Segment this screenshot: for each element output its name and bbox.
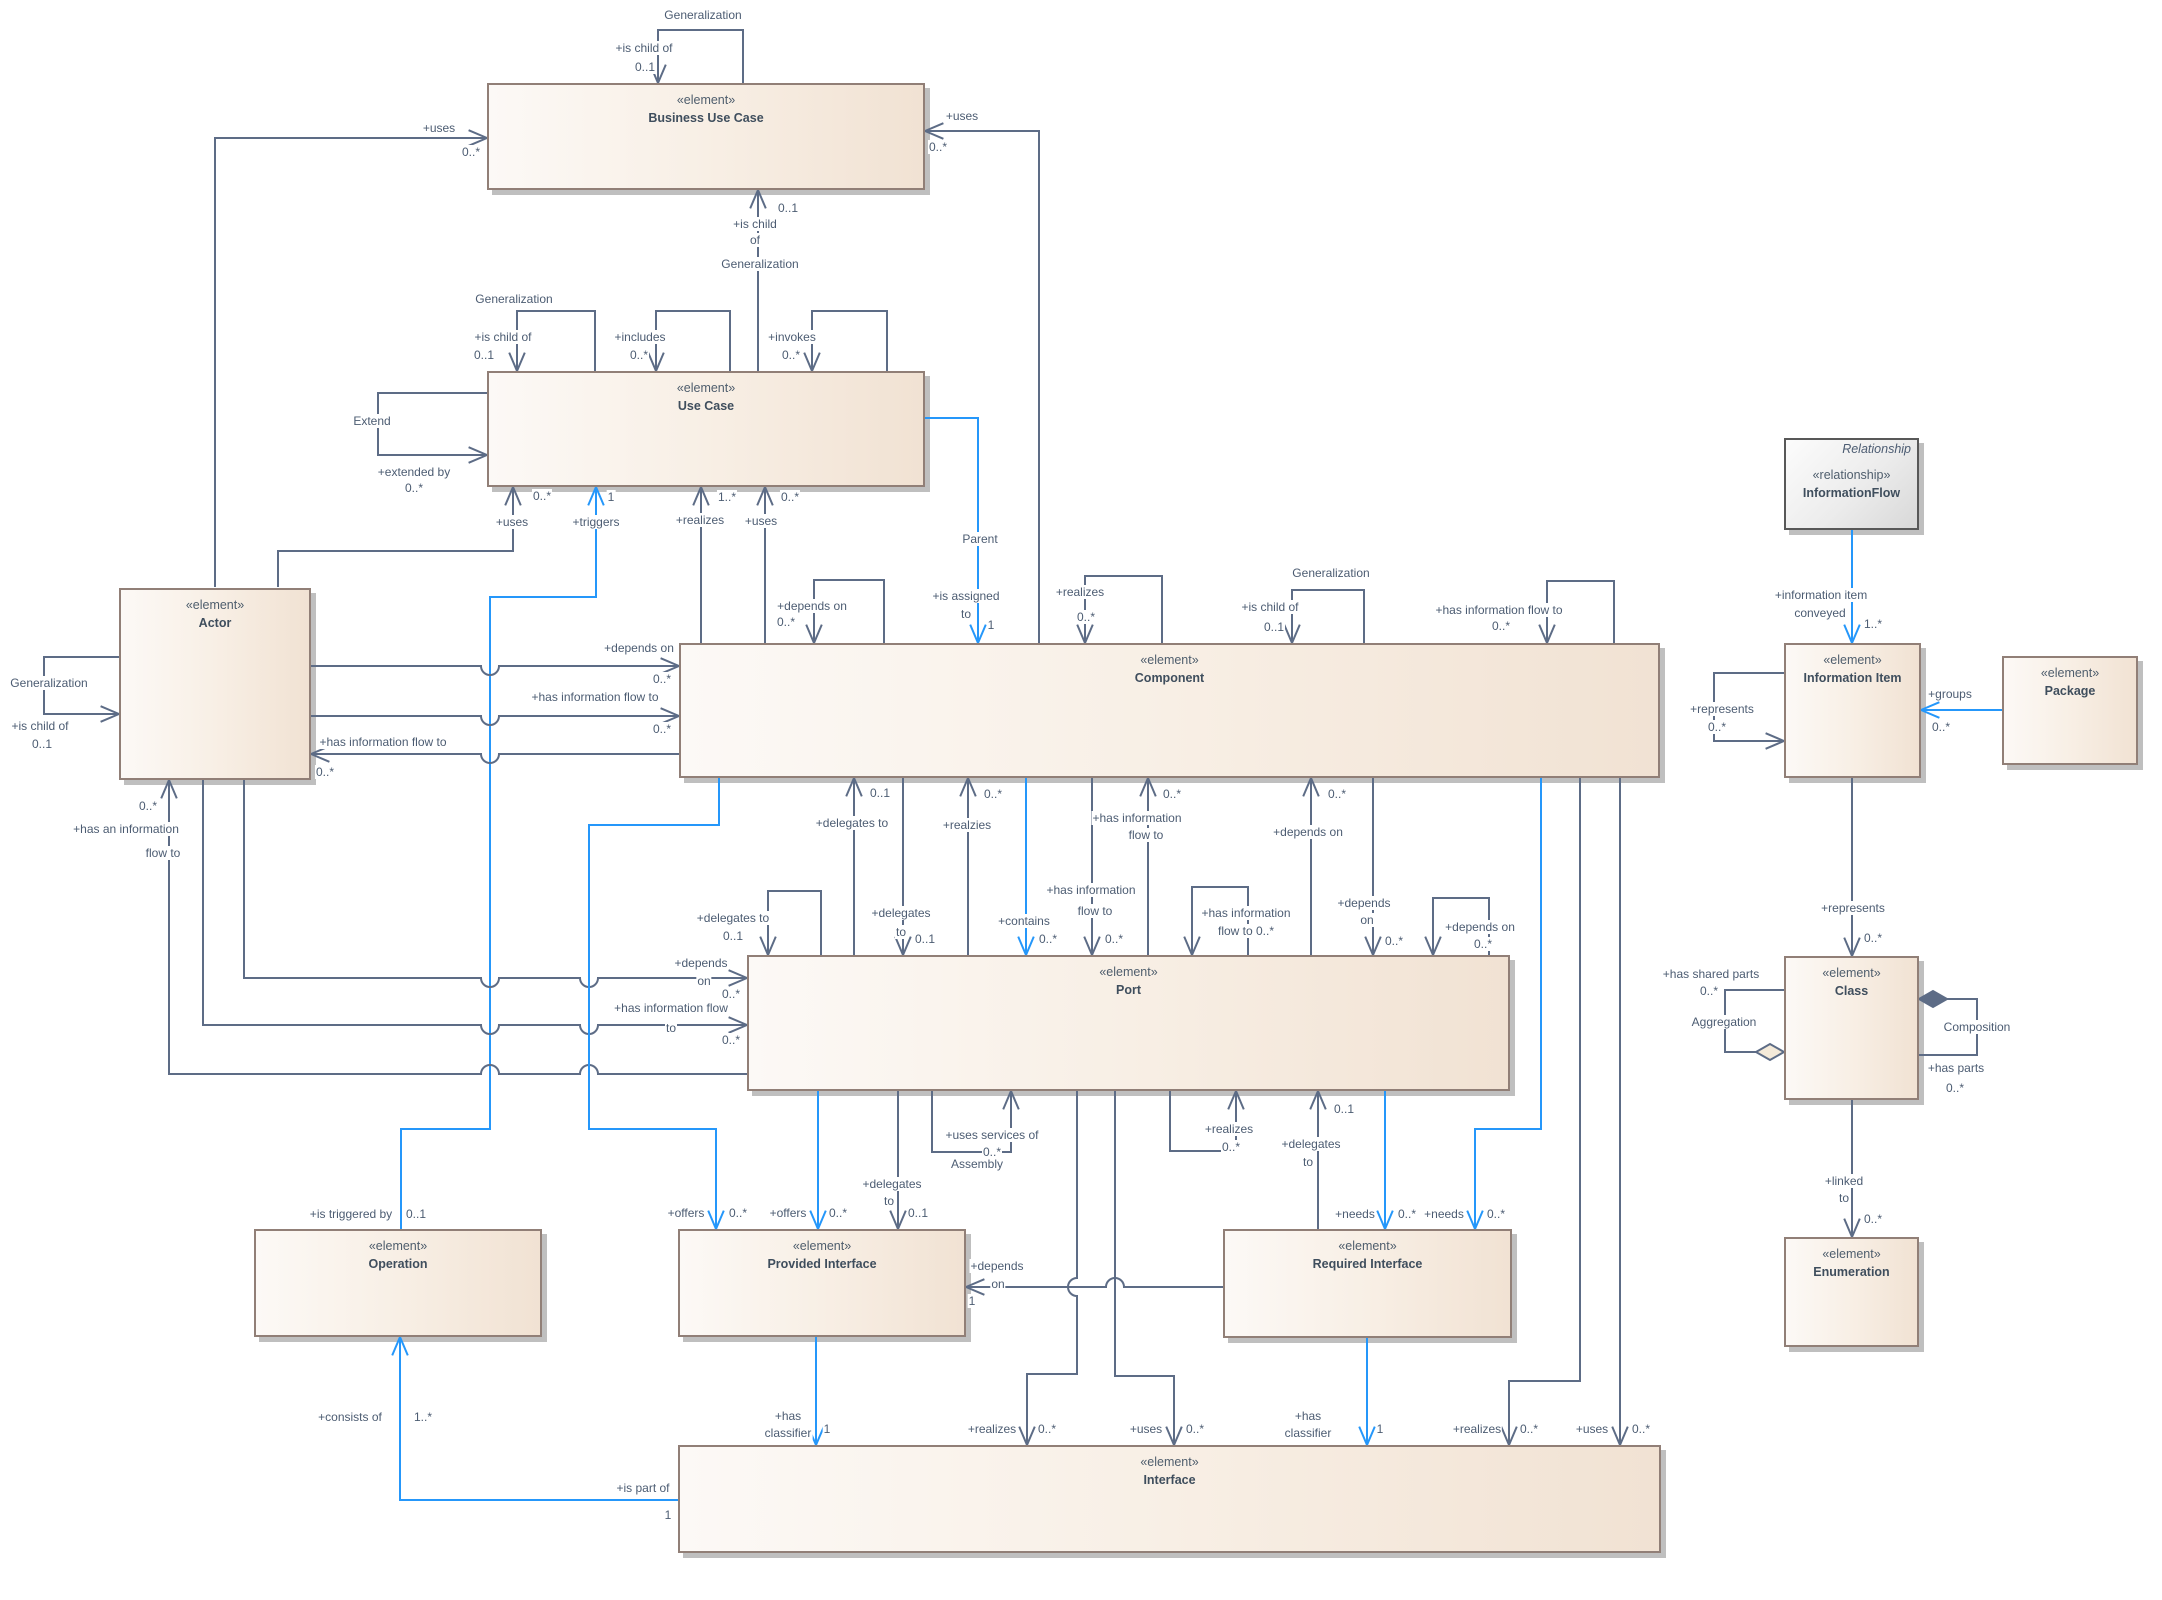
label +has information — [1200, 906, 1291, 920]
label to — [1302, 1155, 1314, 1169]
association Component contains Port (blue) — [1025, 778, 1027, 955]
association Port has an information flow to Actor — [169, 780, 747, 1074]
label +delegates — [1280, 1137, 1341, 1151]
shadow of Port box — [752, 960, 1515, 1096]
association Component offers Provided Interface (blue) — [589, 778, 719, 1229]
label +has an information — [72, 822, 180, 836]
dependency self-loop depends-on on Port — [1433, 898, 1489, 955]
shadow of Required Interface box — [1228, 1234, 1517, 1343]
element box Actor — [119, 588, 311, 780]
label 0..1 — [1333, 1102, 1355, 1116]
label 1..* — [717, 490, 737, 504]
label +uses — [1129, 1422, 1163, 1436]
element box Class — [1784, 956, 1919, 1100]
association Port uses Interface — [1115, 1091, 1174, 1445]
generalization self-loop on Business Use Case — [658, 30, 743, 83]
label +delegates to — [815, 816, 889, 830]
label 1 — [607, 490, 616, 504]
label +realzies — [942, 818, 992, 832]
shadow of InformationFlow box — [1789, 443, 1924, 535]
association Component depends on Port — [1372, 778, 1374, 955]
dependency self-loop depends-on on Component — [814, 580, 884, 643]
label 0..* — [1863, 1212, 1883, 1226]
label +has information flow to — [318, 735, 447, 749]
generalization self-loop on Component — [1292, 590, 1364, 643]
association Component has information flow to Actor — [311, 754, 679, 763]
label Aggregation — [1691, 1015, 1758, 1029]
label +triggers — [571, 515, 620, 529]
association Component needs Required Interface (blue) — [1475, 778, 1541, 1229]
information-flow self-loop on Component — [1547, 581, 1614, 643]
label 0..* — [1486, 1207, 1506, 1221]
association Port realizes Use Case — [700, 487, 702, 643]
label +is child of — [473, 330, 532, 344]
element box Enumeration — [1784, 1237, 1919, 1347]
label +consists of — [317, 1410, 383, 1424]
association Actor uses Business Use Case — [215, 138, 487, 587]
label +depends on — [603, 641, 675, 655]
label 0..* — [1076, 610, 1096, 624]
label Generalization — [1291, 566, 1370, 580]
label +depends — [969, 1259, 1024, 1273]
label 0..* — [1707, 720, 1727, 734]
association Actor uses Use Case — [278, 487, 513, 587]
label +has information flow — [613, 1001, 729, 1015]
label 0..* — [1162, 787, 1182, 801]
label +depends on — [1444, 920, 1516, 934]
composition self-loop on Class — [1919, 999, 1977, 1055]
label 0..1 — [473, 348, 495, 362]
label 0..* — [776, 615, 796, 629]
label 0..* — [404, 481, 424, 495]
label +extended by — [377, 465, 451, 479]
label 0..* — [1038, 932, 1058, 946]
label +is child of — [614, 41, 673, 55]
association Port realizes Interface — [1027, 1091, 1077, 1445]
label 0..* — [1397, 1207, 1417, 1221]
label 1 — [987, 618, 996, 632]
label 0..1 — [777, 201, 799, 215]
label +has information flow to — [530, 690, 659, 704]
label +has information — [1091, 811, 1182, 825]
association InformationFlow conveys Information Item (blue) — [1851, 530, 1853, 643]
label classifier — [1284, 1426, 1333, 1440]
label 0..* — [982, 1145, 1002, 1159]
label +needs — [1334, 1207, 1376, 1221]
element box Interface — [678, 1445, 1661, 1553]
association Component delegates to Port — [902, 778, 904, 955]
label 0..* — [928, 140, 948, 154]
label +realizes — [1204, 1122, 1254, 1136]
association Interface is part of Operation (blue) — [400, 1337, 678, 1500]
shadow of Actor box — [124, 593, 316, 785]
association Actor has information flow to Component — [311, 716, 679, 725]
label 1 — [823, 1422, 832, 1436]
label +linked — [1824, 1174, 1864, 1188]
label +depends on — [1272, 825, 1344, 839]
label 0..* — [1519, 1422, 1539, 1436]
shadow of Business Use Case box — [492, 88, 930, 195]
label 0..* — [1863, 931, 1883, 945]
label +realizes — [675, 513, 725, 527]
association Use Case is assigned to Component (blue) — [925, 418, 978, 643]
label 0..* — [721, 1033, 741, 1047]
label +uses — [744, 514, 778, 528]
label 0..1 — [1263, 620, 1285, 634]
label 0..1 — [914, 932, 936, 946]
label on — [696, 974, 711, 988]
label 0..1 — [405, 1207, 427, 1221]
label to — [960, 607, 972, 621]
label 0..1 — [634, 60, 656, 74]
shadow of Interface box — [683, 1450, 1666, 1558]
shadow of Use Case box — [492, 376, 930, 492]
label Assembly — [950, 1157, 1004, 1171]
element box Use Case — [487, 371, 925, 487]
label 0..* — [1931, 720, 1951, 734]
label of — [749, 233, 761, 247]
label to — [883, 1194, 895, 1208]
label to — [1838, 1191, 1850, 1205]
association Information Item represents Class — [1851, 778, 1853, 956]
element box Port — [747, 955, 1510, 1091]
label +information item — [1774, 588, 1868, 602]
invoke self-loop on Use Case — [812, 311, 887, 371]
label 0..* — [1221, 1140, 1241, 1154]
shadow of Component box — [684, 648, 1665, 783]
label 1 — [664, 1508, 673, 1522]
label 0..* — [1185, 1422, 1205, 1436]
label +has parts — [1927, 1061, 1985, 1075]
label +delegates — [870, 906, 931, 920]
association Actor depends on Port — [244, 780, 747, 987]
label 0..* — [1491, 619, 1511, 633]
association Package groups Information Item (blue) — [1921, 709, 2002, 711]
label conveyed — [1793, 606, 1846, 620]
label +uses services of — [944, 1128, 1039, 1142]
label 0..* — [781, 348, 801, 362]
label +has information — [1045, 883, 1136, 897]
label +uses — [495, 515, 529, 529]
label +delegates to — [696, 911, 770, 925]
label +is child of — [10, 719, 69, 733]
element box Operation — [254, 1229, 542, 1337]
label +needs — [1423, 1207, 1465, 1221]
label Generalization — [474, 292, 553, 306]
label 0..* — [828, 1206, 848, 1220]
label +is assigned — [931, 589, 1000, 603]
label +offers — [769, 1206, 808, 1220]
association Port has information flow to Component — [1147, 778, 1149, 955]
generalization self-loop on Actor — [44, 657, 119, 714]
label +represents — [1820, 901, 1886, 915]
label +is triggered by — [309, 1207, 393, 1221]
label +is child — [732, 217, 778, 231]
label +has information flow to — [1434, 603, 1563, 617]
include self-loop on Use Case — [656, 311, 730, 371]
element box Provided Interface — [678, 1229, 966, 1337]
association Component has information flow to Port — [1091, 778, 1093, 955]
label 0..* — [983, 787, 1003, 801]
label Generalization — [720, 257, 799, 271]
label 0..* — [1104, 932, 1124, 946]
label +has shared parts — [1662, 967, 1760, 981]
element box Package — [2002, 656, 2138, 765]
label 0..* — [1327, 787, 1347, 801]
aggregation self-loop on Class — [1725, 990, 1784, 1052]
label 1 — [968, 1294, 977, 1308]
association Port realzies Component — [967, 778, 969, 955]
label +is child of — [1240, 600, 1299, 614]
shadow of Enumeration box — [1789, 1242, 1924, 1352]
label 0..* — [532, 489, 552, 503]
label +depends — [1336, 896, 1391, 910]
association Provided Interface has classifier Interface (blue) — [815, 1337, 817, 1445]
label 0..* — [461, 145, 481, 159]
label flow to — [145, 846, 182, 860]
label +offers — [667, 1206, 706, 1220]
label +uses — [1575, 1422, 1609, 1436]
element box Information Item — [1784, 643, 1921, 778]
shadow of Class box — [1789, 961, 1924, 1105]
association Actor depends on Component — [311, 666, 679, 675]
association Class linked to Enumeration — [1851, 1100, 1853, 1237]
label 0..* — [1945, 1081, 1965, 1095]
association Use Case triggers Operation (blue) — [401, 487, 596, 1229]
realize self-loop on Component — [1085, 576, 1162, 643]
label classifier — [764, 1426, 813, 1440]
association Port delegates to Provided Interface — [897, 1091, 899, 1229]
label 0..* — [652, 672, 672, 686]
label +realizes — [967, 1422, 1017, 1436]
association Port needs Required Interface (blue) — [1384, 1091, 1386, 1229]
label 0..1 — [31, 737, 53, 751]
label 0..* — [315, 765, 335, 779]
label +groups — [1927, 687, 1973, 701]
relationship box InformationFlow — [1784, 438, 1919, 530]
label 0..1 — [722, 929, 744, 943]
label flow to 0..* — [1217, 924, 1275, 938]
dependency Required Interface depends on Provided Interface — [966, 1278, 1223, 1287]
label +uses — [945, 109, 979, 123]
shadow of Information Item box — [1789, 648, 1926, 783]
shadow of Package box — [2007, 661, 2143, 770]
label Generalization — [9, 676, 88, 690]
element box Business Use Case — [487, 83, 925, 190]
label 0..* — [1699, 984, 1719, 998]
label +uses — [422, 121, 456, 135]
label 0..* — [780, 490, 800, 504]
label Generalization — [663, 8, 742, 22]
label +contains — [997, 914, 1051, 928]
information-flow self-loop on Port — [1192, 887, 1248, 955]
association Component realizes Interface — [1509, 778, 1580, 1445]
label +depends on — [776, 599, 848, 613]
label +depends — [673, 956, 728, 970]
element box Required Interface — [1223, 1229, 1512, 1338]
label flow to — [1128, 828, 1165, 842]
label 1..* — [1863, 617, 1883, 631]
association Port offers Provided Interface (blue) — [817, 1091, 819, 1229]
label 0..* — [728, 1206, 748, 1220]
assembly self-loop on Port — [932, 1091, 1011, 1152]
label +has — [1294, 1409, 1322, 1423]
label 0..* — [1037, 1422, 1057, 1436]
label 0..1 — [907, 1206, 929, 1220]
label +delegates — [861, 1177, 922, 1191]
label +includes — [613, 330, 666, 344]
label +is part of — [615, 1481, 670, 1495]
label +represents — [1689, 702, 1755, 716]
label 0..* — [652, 722, 672, 736]
label on — [990, 1277, 1005, 1291]
association Required Interface delegates to Port — [1317, 1091, 1319, 1229]
association Port delegates to Component — [853, 778, 855, 955]
association Actor has information flow to Port — [203, 780, 747, 1034]
generalization Use Case is child of Business Use Case — [757, 190, 759, 371]
generalization self-loop on Use Case — [517, 311, 595, 371]
label 0..* — [629, 348, 649, 362]
association Port depends on Component — [1310, 778, 1312, 955]
label 0..1 — [869, 786, 891, 800]
label Parent — [961, 532, 998, 546]
label to — [895, 925, 907, 939]
label Composition — [1943, 1020, 2012, 1034]
label +has — [774, 1409, 802, 1423]
label 0..* — [138, 799, 158, 813]
element box Component — [679, 643, 1660, 778]
association Required Interface has classifier Interface (blue) — [1366, 1338, 1368, 1445]
label to — [665, 1021, 677, 1035]
delegate self-loop on Port — [768, 891, 821, 955]
shadow of Provided Interface box — [683, 1234, 971, 1342]
label 1 — [1376, 1422, 1385, 1436]
label 0..* — [1631, 1422, 1651, 1436]
realize self-loop on Port — [1170, 1091, 1236, 1151]
label +realizes — [1452, 1422, 1502, 1436]
label on — [1359, 913, 1374, 927]
composition filled diamond at Class — [1919, 991, 1947, 1007]
label +invokes — [767, 330, 817, 344]
label flow to — [1077, 904, 1114, 918]
label 0..* — [1384, 934, 1404, 948]
label +realizes — [1055, 585, 1105, 599]
represents self-loop on Information Item — [1714, 673, 1784, 741]
association Component uses Use Case — [764, 487, 766, 643]
extend self-loop on Use Case — [378, 393, 487, 455]
shadow of Operation box — [259, 1234, 547, 1342]
label Extend — [352, 414, 391, 428]
association Component uses Interface — [1619, 778, 1621, 1445]
label 1..* — [413, 1410, 433, 1424]
aggregation hollow diamond at Class — [1756, 1044, 1784, 1060]
label 0..* — [1473, 937, 1493, 951]
association Component uses Business Use Case — [925, 131, 1039, 643]
label 0..* — [721, 987, 741, 1001]
